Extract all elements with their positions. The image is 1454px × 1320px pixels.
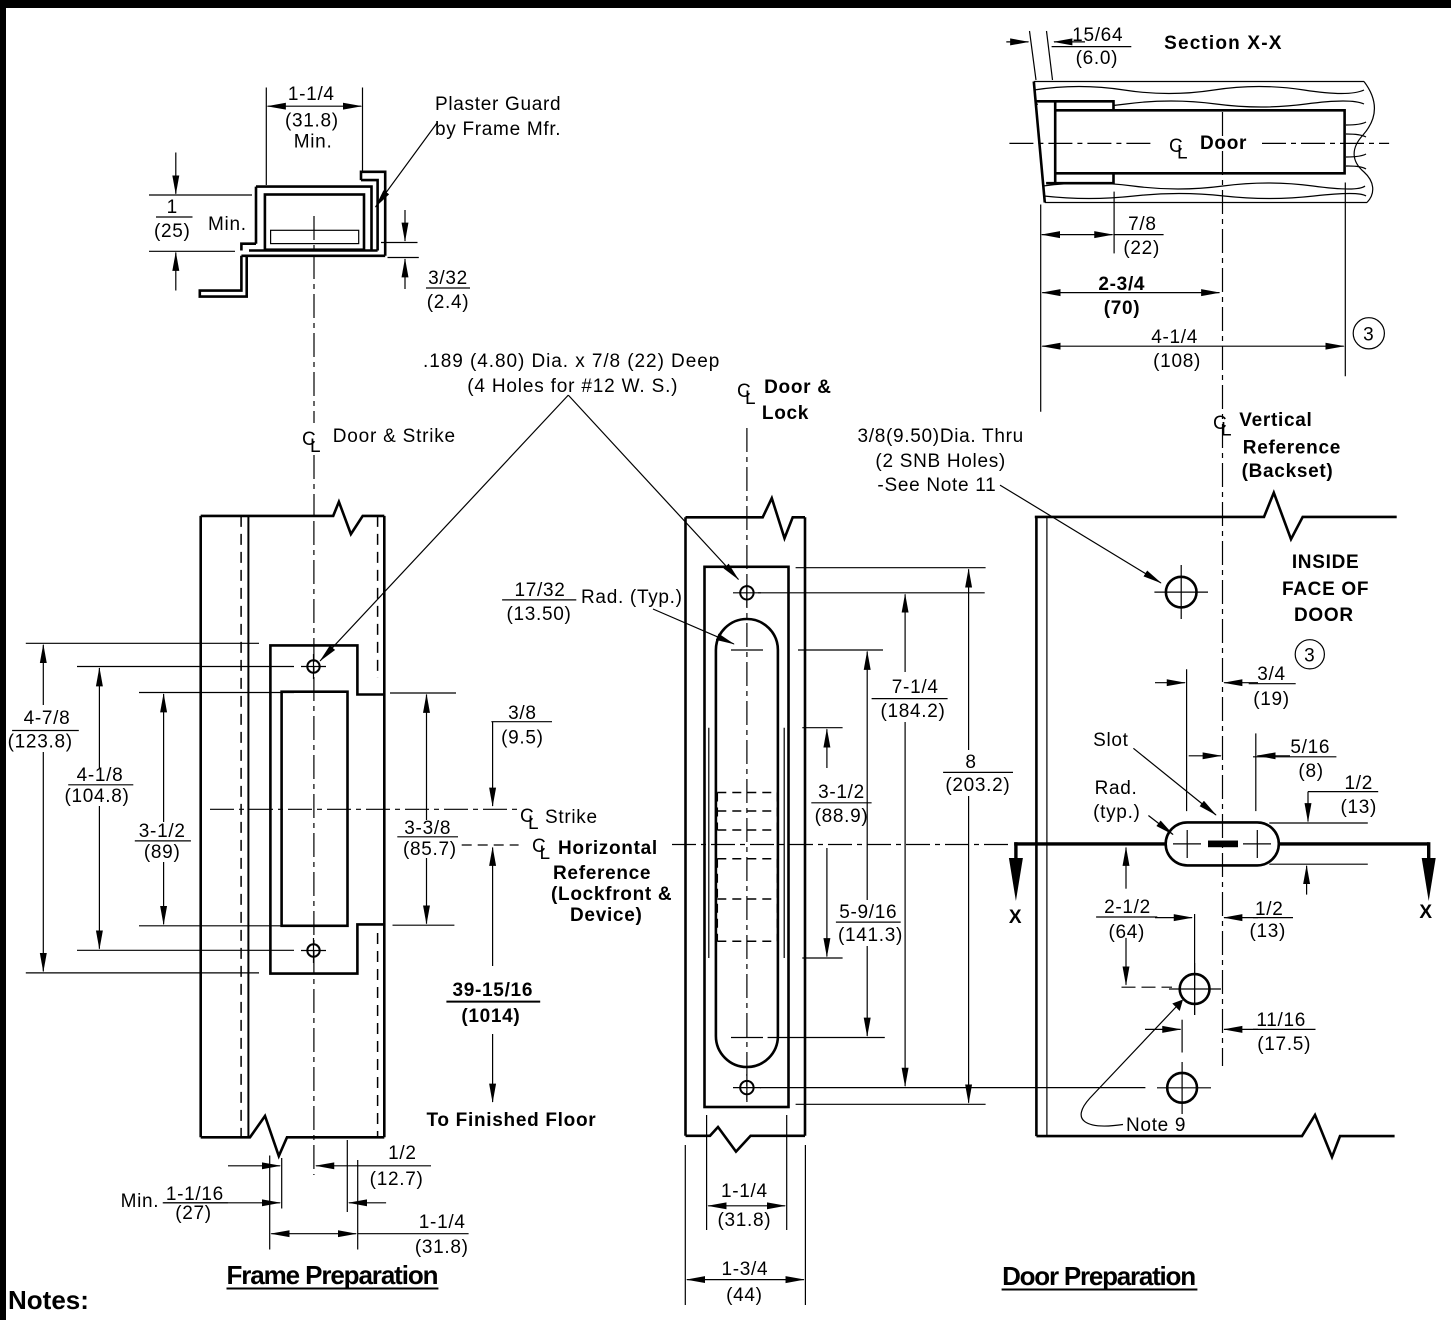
svg-text:(27): (27)	[175, 1203, 212, 1224]
svg-text:1-1/16: 1-1/16	[166, 1184, 224, 1205]
svg-text:(31.8): (31.8)	[415, 1237, 469, 1258]
mortise outline	[1055, 110, 1344, 173]
dim 1-1/4 (31.8) bottom	[271, 1233, 313, 1235]
leader to frame top hole from note	[320, 395, 568, 661]
svg-text:(2 SNB Holes): (2 SNB Holes)	[875, 451, 1006, 472]
bottom screw hole	[740, 1081, 753, 1094]
dim 1/2 (12.7)	[228, 1165, 280, 1167]
strike lip rect	[271, 230, 359, 243]
hidden edge dashed	[240, 516, 242, 1137]
svg-text:4-7/8: 4-7/8	[24, 708, 71, 729]
svg-text:5-9/16: 5-9/16	[839, 902, 897, 923]
upper dashed lock body	[717, 793, 777, 831]
svg-text:L: L	[745, 388, 756, 409]
svg-text:X: X	[1419, 902, 1432, 923]
backset centerline vertical	[1222, 112, 1224, 1066]
centerline vertical	[313, 521, 315, 1175]
ext line left slot arc	[1186, 669, 1188, 811]
centerline door & strike (lower)	[313, 455, 315, 516]
dim 3-1/2 (88.9)	[826, 729, 828, 768]
hole center dashed ext	[1122, 986, 1173, 988]
CL horizontal reference dashes left	[462, 844, 519, 846]
strike box cup inner	[265, 195, 364, 250]
dim 4-7/8	[42, 645, 44, 705]
dim 1-1/4 arrows	[268, 105, 315, 107]
svg-text:(70): (70)	[1104, 298, 1141, 319]
svg-text:(Lockfront &: (Lockfront &	[551, 884, 672, 905]
dim 4-1/8	[98, 668, 100, 768]
dim 3-1/2	[163, 694, 165, 822]
dim 8 (203.2)	[968, 569, 970, 750]
svg-text:Slot: Slot	[1093, 730, 1129, 751]
dim 39-15/16 upper arrow	[492, 848, 494, 967]
faceplate recess outline	[1037, 101, 1114, 183]
bottom ext lines	[685, 1115, 805, 1305]
ext line opening top	[139, 692, 294, 694]
door lock edge thick	[1035, 517, 1038, 1136]
svg-text:Min.: Min.	[121, 1191, 160, 1212]
top screw hole	[740, 586, 753, 599]
svg-text:(203.2): (203.2)	[945, 775, 1010, 796]
svg-text:DOOR: DOOR	[1294, 605, 1354, 626]
CL horizontal reference through figure	[672, 844, 1011, 846]
door edge top with break	[686, 498, 806, 538]
svg-text:(typ.): (typ.)	[1093, 802, 1140, 823]
svg-text:(88.9): (88.9)	[815, 806, 869, 827]
lower SNB hole	[1167, 1073, 1197, 1103]
top screw hole	[307, 660, 319, 672]
svg-text:3/8(9.50)Dia. Thru: 3/8(9.50)Dia. Thru	[857, 426, 1023, 447]
svg-text:Note 9: Note 9	[1126, 1115, 1186, 1136]
ext line plate bottom	[26, 972, 259, 974]
dim min 1-1/16 (27)	[163, 1202, 280, 1204]
slot stadium	[1166, 822, 1279, 865]
leader rad typ to slot top	[653, 609, 734, 644]
svg-text:3: 3	[1363, 324, 1374, 345]
ext line right slot arc	[1255, 733, 1257, 811]
svg-text:(9.5): (9.5)	[501, 728, 544, 749]
bevel ext lines slanted	[1030, 31, 1053, 80]
svg-text:(2.4): (2.4)	[427, 292, 470, 313]
frame rabbet face line upper	[249, 249, 378, 252]
svg-text:Reference: Reference	[1243, 438, 1341, 459]
svg-text:Door Preparation: Door Preparation	[1002, 1261, 1196, 1291]
ext line pocket bottom	[802, 957, 842, 959]
svg-text:(12.7): (12.7)	[370, 1169, 424, 1190]
door edge left	[684, 517, 687, 1136]
svg-text:1-1/4: 1-1/4	[721, 1181, 768, 1202]
door bevel edge	[1034, 82, 1045, 203]
door band top edge	[1034, 81, 1364, 83]
svg-text:X: X	[1009, 907, 1022, 928]
svg-text:(Backset): (Backset)	[1242, 461, 1334, 482]
svg-text:L: L	[528, 813, 539, 834]
svg-text:L: L	[540, 843, 551, 864]
dim 1-1/4 (31.8)	[708, 1205, 746, 1207]
door edge right	[804, 517, 807, 1136]
door bottom edge with break	[1036, 1115, 1394, 1157]
slot top arc center tick	[731, 649, 763, 651]
strike plate outline	[270, 645, 384, 973]
svg-text:1-3/4: 1-3/4	[721, 1259, 768, 1280]
svg-text:(13): (13)	[1250, 921, 1287, 942]
dim 11/16 (17.5)	[1145, 1028, 1181, 1030]
lower hole ext vertical	[1181, 1020, 1183, 1053]
svg-text:(123.8): (123.8)	[8, 732, 73, 753]
svg-text:(31.8): (31.8)	[285, 111, 339, 132]
svg-text:4-1/4: 4-1/4	[1151, 327, 1198, 348]
svg-text:(108): (108)	[1153, 351, 1201, 372]
leader plaster guard	[376, 123, 438, 207]
dim 1-3/4 (44)	[687, 1279, 745, 1281]
svg-text:Door & Strike: Door & Strike	[333, 426, 456, 447]
page border left	[0, 0, 6, 1320]
CL door centerline	[1009, 142, 1152, 144]
leader see note 11 to SNB hole	[1000, 485, 1161, 583]
slot ext bottom	[1269, 863, 1368, 865]
svg-text:INSIDE: INSIDE	[1292, 552, 1360, 573]
svg-text:8: 8	[965, 752, 976, 773]
CL strike horizontal	[210, 808, 519, 810]
leader note 9 curved	[1081, 1007, 1176, 1126]
door edge bottom with break	[686, 1127, 806, 1152]
slot ext top	[1269, 822, 1368, 824]
svg-text:3-1/2: 3-1/2	[818, 782, 865, 803]
svg-text:Rad.: Rad.	[1095, 778, 1138, 799]
svg-text:(6.0): (6.0)	[1076, 48, 1119, 69]
dim 1 (25) arrows	[175, 153, 177, 194]
strike opening	[282, 692, 348, 926]
svg-text:by Frame Mfr.: by Frame Mfr.	[435, 119, 561, 140]
svg-text:(31.8): (31.8)	[717, 1210, 771, 1231]
svg-text:Plaster Guard: Plaster Guard	[435, 94, 561, 115]
jamb face line	[247, 516, 249, 1137]
svg-text:1: 1	[167, 197, 178, 218]
right ext line opening top	[390, 692, 456, 694]
door lock edge inner thin	[1046, 517, 1048, 1136]
ext line pocket top	[802, 727, 842, 729]
svg-text:15/64: 15/64	[1072, 25, 1123, 46]
svg-text:L: L	[1177, 143, 1188, 164]
wood grain hatch	[1034, 87, 1364, 94]
svg-text:Reference: Reference	[553, 863, 651, 884]
upper SNB hole lower	[1180, 974, 1210, 1004]
band right wavy break	[1354, 82, 1374, 203]
SNB hole top	[1166, 577, 1197, 608]
holes line vertical	[1194, 914, 1196, 1015]
svg-text:7/8: 7/8	[1128, 214, 1157, 235]
svg-text:(25): (25)	[154, 221, 191, 242]
centerline door & strike (upper)	[313, 216, 315, 423]
svg-text:Horizontal: Horizontal	[558, 838, 658, 859]
section corner right + arrow	[1427, 842, 1430, 860]
svg-text:L: L	[1221, 420, 1232, 441]
slot bottom arc center tick	[731, 1037, 763, 1039]
bottom screw hole	[307, 944, 319, 956]
frame left edge	[199, 516, 202, 1137]
mortise cavity	[1054, 109, 1347, 175]
svg-text:Vertical: Vertical	[1239, 410, 1312, 431]
left face ref line	[1040, 205, 1042, 412]
centerline vertical	[746, 428, 748, 1100]
svg-text:5/16: 5/16	[1290, 737, 1330, 758]
svg-text:Section X-X: Section X-X	[1164, 33, 1282, 54]
hidden dashed right lower	[377, 933, 379, 1137]
svg-text:(1014): (1014)	[461, 1006, 520, 1027]
svg-text:Door: Door	[1200, 133, 1247, 154]
dim 7/8 arrows	[1042, 234, 1077, 236]
svg-text:Frame Preparation: Frame Preparation	[227, 1260, 439, 1290]
svg-text:3/32: 3/32	[428, 268, 468, 289]
svg-text:(44): (44)	[726, 1285, 763, 1306]
ext line bottom hole right	[760, 1087, 1145, 1089]
svg-text:Door &: Door &	[764, 377, 832, 398]
door top edge with break	[1035, 493, 1397, 540]
dim 3-3/8	[426, 695, 428, 821]
svg-text:3: 3	[1304, 645, 1315, 666]
dim 39-15/16 lower arrow	[492, 1034, 494, 1102]
frame right edge	[383, 516, 386, 1137]
circled 3	[1295, 640, 1324, 669]
svg-text:1/2: 1/2	[388, 1143, 417, 1164]
ext line plate top right	[796, 567, 986, 569]
svg-text:Device): Device)	[570, 905, 643, 926]
ext line plate top	[26, 642, 259, 644]
svg-text:(8): (8)	[1298, 761, 1323, 782]
svg-text:39-15/16: 39-15/16	[452, 980, 533, 1001]
ext line right mortise	[1344, 183, 1346, 377]
slot left crosshair	[1173, 830, 1201, 858]
ext line bottom hole	[77, 949, 294, 951]
svg-text:3-1/2: 3-1/2	[139, 821, 186, 842]
svg-text:3/8: 3/8	[508, 703, 537, 724]
frame face line lower	[241, 255, 385, 258]
strike box cup outer	[256, 187, 372, 251]
svg-text:Rad. (Typ.): Rad. (Typ.)	[581, 587, 683, 608]
dim 2-1/2 (64)	[1125, 848, 1127, 889]
ext line 7/8	[1113, 192, 1115, 254]
page border top	[0, 0, 1451, 8]
dim 3/32 arrows	[404, 210, 406, 241]
dim 5/16 (8)	[1189, 755, 1221, 757]
svg-text:3/4: 3/4	[1257, 664, 1286, 685]
svg-text:(64): (64)	[1109, 922, 1146, 943]
leader to top hole from note	[568, 395, 738, 579]
svg-text:L: L	[310, 436, 321, 457]
section line X-X thick	[1014, 842, 1165, 845]
svg-text:To Finished Floor: To Finished Floor	[427, 1110, 597, 1131]
svg-text:Lock: Lock	[762, 403, 809, 424]
frame top edge with break	[201, 502, 385, 534]
plaster guard outer	[361, 172, 385, 256]
ext line slot bottom center	[768, 1037, 885, 1039]
svg-text:1-1/4: 1-1/4	[419, 1212, 466, 1233]
svg-text:1/2: 1/2	[1345, 773, 1374, 794]
lockfront plate	[705, 567, 789, 1107]
door band bottom edge	[1045, 202, 1367, 204]
hidden dashed right upper	[377, 516, 379, 678]
right ext line step bottom	[393, 924, 455, 926]
svg-text:(13.50): (13.50)	[506, 604, 571, 625]
svg-text:(22): (22)	[1123, 238, 1160, 259]
faceplate recess white	[1038, 103, 1114, 183]
bold dash in slot	[1208, 841, 1238, 848]
slot stadium	[716, 619, 778, 1067]
slot right crosshair	[1243, 830, 1271, 858]
section corner left + arrow	[1014, 842, 1017, 860]
svg-text:(141.3): (141.3)	[838, 925, 903, 946]
svg-text:Notes:: Notes:	[8, 1285, 89, 1315]
svg-text:(184.2): (184.2)	[880, 701, 945, 722]
svg-text:11/16: 11/16	[1256, 1010, 1306, 1031]
dim 1/2 (13) lower	[1155, 917, 1192, 919]
svg-text:(89): (89)	[144, 842, 181, 863]
dim 1 (25) ext lines	[149, 195, 252, 251]
bold dash in slot (over)	[1208, 841, 1238, 848]
dim 3/32 ext lines	[381, 243, 419, 258]
svg-text:Min.: Min.	[208, 214, 247, 235]
svg-text:17/32: 17/32	[514, 580, 565, 601]
ext line opening bottom	[139, 925, 294, 927]
svg-text:Strike: Strike	[545, 807, 598, 828]
svg-text:1/2: 1/2	[1255, 899, 1284, 920]
ext line top hole right	[758, 592, 985, 594]
svg-text:3-3/8: 3-3/8	[404, 818, 451, 839]
svg-text:7-1/4: 7-1/4	[892, 677, 939, 698]
svg-text:4-1/8: 4-1/8	[77, 765, 124, 786]
dim 5-9/16 (141.3)	[866, 652, 868, 901]
svg-text:(104.8): (104.8)	[64, 786, 129, 807]
pocket line right	[783, 728, 785, 958]
ext line slot top center	[798, 649, 883, 651]
svg-text:(4 Holes for #12 W. S.): (4 Holes for #12 W. S.)	[467, 376, 678, 397]
svg-text:(19): (19)	[1253, 689, 1290, 710]
circled 3	[1353, 318, 1384, 349]
dim 7-1/4 (184.2)	[904, 594, 906, 672]
svg-text:2-3/4: 2-3/4	[1098, 274, 1145, 295]
svg-text:(85.7): (85.7)	[403, 839, 457, 860]
svg-text:-See Note 11: -See Note 11	[877, 475, 996, 496]
faceplate back edge	[1054, 101, 1057, 183]
bottom ext lines	[269, 1156, 271, 1250]
svg-text:2-1/2: 2-1/2	[1104, 897, 1151, 918]
frame bottom edge with break	[201, 1116, 385, 1156]
lower dashed lock body	[717, 859, 777, 942]
pocket line left	[708, 728, 710, 958]
dim 15/64 arrows	[1006, 41, 1028, 43]
svg-text:Min.: Min.	[294, 132, 333, 153]
svg-text:(17.5): (17.5)	[1257, 1034, 1311, 1055]
dim 3/4 (19)	[1155, 682, 1185, 684]
ext line top hole	[77, 666, 294, 668]
frame jamb Z-step left	[200, 244, 256, 297]
svg-text:(13): (13)	[1341, 797, 1378, 818]
ext line plate bottom right	[796, 1103, 986, 1105]
svg-text:.189 (4.80) Dia. x 7/8 (22) De: .189 (4.80) Dia. x 7/8 (22) Deep	[423, 351, 720, 372]
dim 1-1/4 ext lines	[266, 88, 362, 186]
svg-text:1-1/4: 1-1/4	[288, 84, 335, 105]
svg-text:FACE OF: FACE OF	[1282, 579, 1369, 600]
